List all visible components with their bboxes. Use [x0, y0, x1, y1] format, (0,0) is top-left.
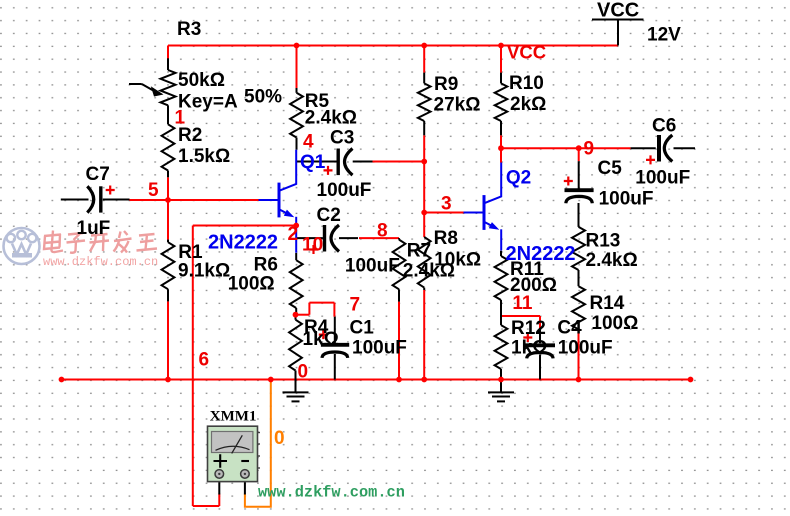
svg-text:27kΩ: 27kΩ — [434, 95, 481, 116]
svg-text:VCC: VCC — [597, 0, 639, 22]
svg-text:C6: C6 — [652, 116, 676, 137]
svg-text:1uF: 1uF — [77, 218, 111, 239]
svg-text:9.1kΩ: 9.1kΩ — [178, 261, 230, 282]
svg-text:10: 10 — [302, 235, 323, 256]
svg-text:2.4kΩ: 2.4kΩ — [305, 107, 357, 128]
svg-text:Q1: Q1 — [300, 152, 326, 173]
svg-text:9: 9 — [584, 138, 595, 159]
svg-text:R13: R13 — [586, 230, 621, 251]
svg-text:R3: R3 — [177, 19, 201, 40]
svg-text:C4: C4 — [557, 318, 582, 339]
svg-text:R6: R6 — [254, 254, 278, 275]
svg-text:6: 6 — [199, 349, 210, 370]
svg-text:R8: R8 — [434, 228, 458, 249]
svg-text:7: 7 — [350, 295, 361, 316]
svg-text:0: 0 — [274, 428, 285, 449]
svg-text:100uF: 100uF — [345, 256, 400, 277]
svg-text:XMM1: XMM1 — [210, 408, 257, 424]
svg-text:2N2222: 2N2222 — [208, 232, 278, 254]
svg-text:2.4kΩ: 2.4kΩ — [403, 261, 455, 282]
svg-text:100Ω: 100Ω — [591, 313, 638, 334]
svg-text:100uF: 100uF — [352, 338, 407, 359]
svg-text:50kΩ: 50kΩ — [178, 70, 225, 91]
svg-text:Q2: Q2 — [506, 167, 531, 188]
svg-text:R10: R10 — [509, 73, 544, 94]
svg-text:3: 3 — [441, 194, 452, 215]
svg-text:1kΩ: 1kΩ — [303, 329, 339, 350]
svg-text:1: 1 — [175, 108, 186, 129]
svg-text:100uF: 100uF — [635, 168, 690, 189]
svg-text:Key=A: Key=A — [178, 92, 238, 113]
svg-text:12V: 12V — [647, 25, 681, 46]
svg-text:8: 8 — [377, 221, 388, 242]
svg-text:www.dzkfw.com.cn: www.dzkfw.com.cn — [43, 255, 158, 269]
svg-text:50%: 50% — [244, 87, 282, 108]
svg-text:R12: R12 — [511, 318, 546, 339]
svg-text:C2: C2 — [317, 205, 341, 226]
svg-text:4: 4 — [303, 132, 314, 153]
svg-text:100uF: 100uF — [317, 180, 372, 201]
svg-text:100uF: 100uF — [599, 188, 654, 209]
svg-text:0: 0 — [298, 362, 309, 383]
svg-text:C1: C1 — [350, 318, 375, 339]
svg-text:11: 11 — [512, 293, 533, 314]
svg-text:C5: C5 — [598, 158, 623, 179]
svg-text:C7: C7 — [86, 164, 110, 185]
svg-text:R14: R14 — [590, 293, 625, 314]
svg-text:VCC: VCC — [507, 41, 546, 62]
svg-text:100Ω: 100Ω — [228, 274, 275, 295]
svg-text:2kΩ: 2kΩ — [510, 94, 546, 115]
svg-text:R9: R9 — [434, 74, 458, 95]
svg-text:2: 2 — [288, 224, 299, 245]
svg-text:1.5kΩ: 1.5kΩ — [178, 146, 230, 167]
svg-text:C3: C3 — [330, 128, 354, 149]
svg-text:2.4kΩ: 2.4kΩ — [586, 250, 638, 271]
svg-text:100uF: 100uF — [558, 338, 613, 359]
svg-text:2N2222: 2N2222 — [506, 243, 576, 265]
svg-text:www.dzkfw.com.cn: www.dzkfw.com.cn — [258, 484, 405, 502]
svg-text:R7: R7 — [407, 241, 431, 262]
svg-text:5: 5 — [148, 180, 159, 201]
svg-text:1kΩ: 1kΩ — [511, 338, 547, 359]
